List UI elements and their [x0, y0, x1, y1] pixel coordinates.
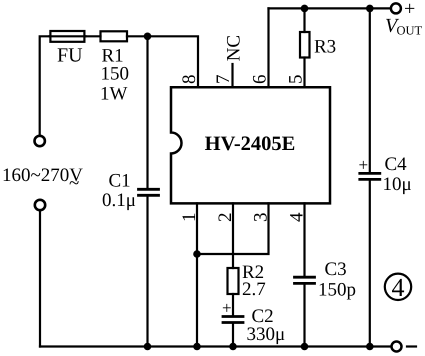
label minus: [407, 345, 416, 347]
wire pin6 up to top rail: [267, 8, 269, 87]
label R1 150 1W: [100, 46, 129, 105]
resistor R3: [300, 32, 310, 58]
node C1 rail: [144, 343, 152, 351]
wire input bottom down to rail: [39, 211, 41, 347]
node pin1/pin3: [193, 250, 201, 258]
svg-text:HV-2405E: HV-2405E: [205, 133, 296, 155]
wire pin7 NC stub: [231, 64, 233, 87]
svg-text:0.1μ: 0.1μ: [102, 190, 136, 211]
bottom rail wire: [40, 345, 391, 347]
top rail wire: [269, 7, 391, 9]
svg-text:2.7: 2.7: [242, 279, 266, 300]
terminal input top: [35, 136, 45, 146]
svg-text:~: ~: [69, 173, 79, 194]
wire pin1 down to rail: [196, 203, 198, 346]
capacitor C1: [139, 189, 159, 195]
svg-text:C1: C1: [109, 171, 131, 192]
svg-text:C3: C3: [325, 259, 347, 280]
figure number 4 circled: [385, 273, 411, 302]
svg-text:4: 4: [392, 273, 405, 302]
wire C4 down: [369, 181, 371, 347]
resistor R1: [101, 31, 128, 41]
node C3 rail: [301, 343, 309, 351]
label R2 2.7: [242, 262, 266, 300]
svg-text:OUT: OUT: [397, 24, 423, 38]
wire C4 branch: [369, 8, 371, 172]
wire C3 down to rail: [303, 285, 305, 347]
label 160~270V: [2, 165, 83, 194]
label C4 10u: [383, 154, 412, 195]
svg-text:NC: NC: [224, 35, 245, 61]
terminal input bottom: [35, 200, 45, 210]
label C2 330u: [247, 306, 286, 345]
wire C2 down to rail: [232, 323, 234, 347]
wire fuse to R1: [86, 35, 101, 37]
label C1 0.1u: [102, 171, 136, 212]
capacitor C2: [223, 317, 243, 323]
wire R1 to pin8 corner: [127, 36, 198, 87]
svg-text:+: +: [222, 299, 232, 318]
svg-text:C4: C4: [385, 154, 408, 175]
svg-text:+: +: [404, 0, 415, 20]
svg-text:8: 8: [179, 75, 200, 85]
svg-text:R3: R3: [314, 37, 336, 58]
label VOUT: [385, 15, 423, 38]
svg-text:FU: FU: [57, 45, 83, 67]
svg-text:10μ: 10μ: [383, 174, 412, 195]
svg-text:7: 7: [213, 75, 234, 85]
IC U1 HV-2405E body: [171, 87, 330, 203]
wire pin4 down to C3: [303, 203, 305, 276]
fuse FU: [50, 31, 86, 42]
svg-text:150p: 150p: [318, 280, 356, 301]
node pin1 rail: [193, 343, 201, 351]
capacitor C4: [360, 173, 380, 179]
svg-text:1W: 1W: [100, 84, 128, 105]
wire R2 to C2: [232, 294, 234, 315]
node C4 bottom: [366, 343, 374, 351]
wire input top up: [40, 36, 50, 135]
svg-text:+: +: [359, 156, 369, 175]
node C2 rail: [229, 343, 237, 351]
terminal Vout plus: [391, 3, 401, 13]
node R3 top: [301, 5, 309, 13]
wire pin5 up to R3: [303, 58, 305, 88]
wire pin3 down and left to pin1: [197, 203, 269, 254]
wire pin2 down to R2: [232, 203, 234, 268]
capacitor C3: [295, 277, 315, 283]
node junction R1/C1: [144, 33, 152, 41]
terminal minus: [392, 342, 402, 352]
svg-text:6: 6: [249, 75, 270, 85]
svg-text:330μ: 330μ: [247, 324, 286, 345]
label C3 150p: [318, 259, 356, 301]
svg-text:5: 5: [285, 75, 306, 85]
resistor R2: [228, 268, 239, 294]
label plus: [404, 0, 415, 20]
svg-text:150: 150: [101, 64, 130, 85]
wire R3 up to top rail: [303, 8, 305, 32]
wire junction down to C1: [146, 36, 148, 188]
node C4 top: [366, 5, 374, 13]
wire C1 down to bottom rail: [146, 197, 148, 347]
